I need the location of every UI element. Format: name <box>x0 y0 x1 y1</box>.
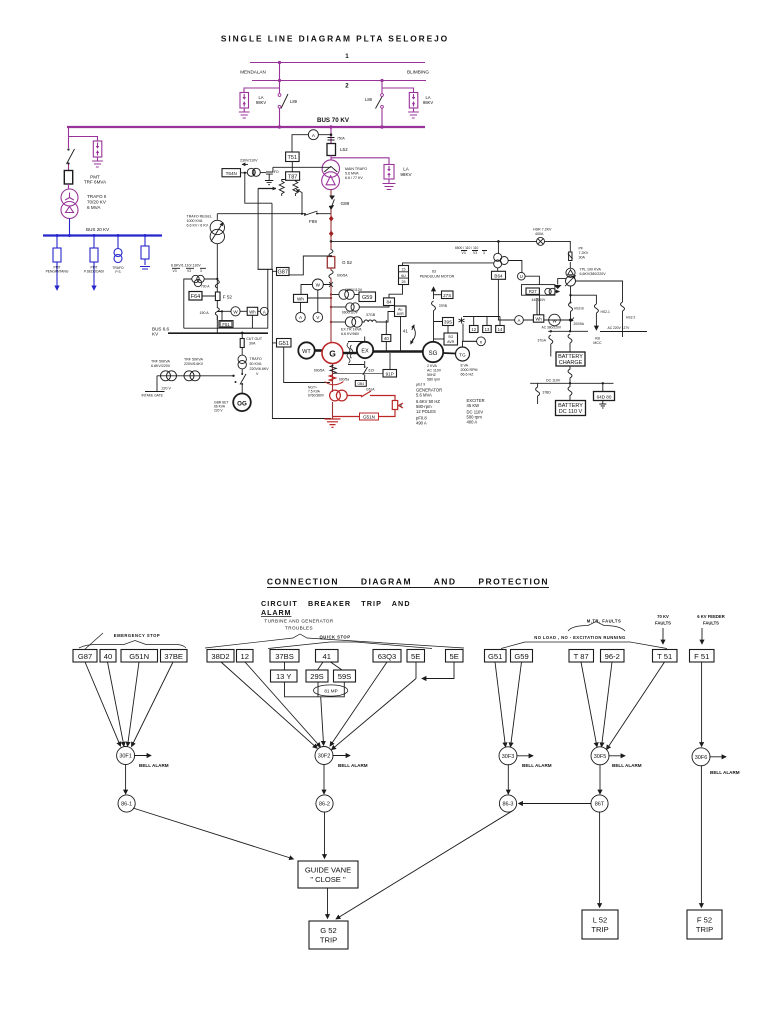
regulator R27 <box>525 276 539 284</box>
disconnect switch <box>67 149 75 164</box>
ground <box>383 179 396 190</box>
relay F51 <box>219 321 233 328</box>
svg-text:SG: SG <box>429 350 438 357</box>
svg-text:T64N: T64N <box>226 171 237 176</box>
svg-text:SG: SG <box>448 335 453 339</box>
svg-text:GUIDE VANE: GUIDE VANE <box>305 866 351 875</box>
svg-text:1: 1 <box>345 53 349 60</box>
svg-text:FO: FO <box>274 170 279 174</box>
relay 91P <box>383 370 397 378</box>
wire to PF <box>545 241 571 252</box>
wire relay loop <box>258 269 332 418</box>
svg-text:M.TR. FAULTS: M.TR. FAULTS <box>587 619 622 624</box>
svg-text:TRAFO II: TRAFO II <box>87 194 106 199</box>
breaker G52 <box>327 257 335 269</box>
relay 13Y <box>271 670 298 682</box>
svg-text:13: 13 <box>485 327 490 332</box>
svg-text:96-2: 96-2 <box>605 652 620 661</box>
ground <box>92 157 103 167</box>
svg-text:P S: P S <box>115 270 121 274</box>
relay G51N <box>121 650 158 663</box>
wire to F52 trip <box>700 765 702 907</box>
resistor var right <box>293 180 298 196</box>
svg-text:220V/6.6KV: 220V/6.6KV <box>250 367 270 371</box>
svg-text:MAIN TRAFO: MAIN TRAFO <box>345 167 367 171</box>
relay 5E b <box>446 650 464 663</box>
svg-text:SINGLE LINE DIAGRAM PLTA SE: SINGLE LINE DIAGRAM PLTA SELOREJO <box>221 34 449 44</box>
meter V <box>313 312 323 322</box>
svg-text:37BE: 37BE <box>164 652 183 661</box>
relay T51 <box>286 152 300 162</box>
brace emergency <box>79 641 186 649</box>
relay 12 <box>237 650 254 663</box>
svg-text:V: V <box>316 315 320 320</box>
svg-text:84: 84 <box>386 300 392 305</box>
switch below charger <box>568 366 572 383</box>
svg-text:V: V <box>256 372 259 376</box>
wire down + branch <box>571 281 623 304</box>
relay 41 <box>316 650 339 663</box>
relay GB4 <box>355 381 366 387</box>
svg-text:70 KV: 70 KV <box>657 614 669 619</box>
svg-text:n: n <box>480 339 483 344</box>
relay 59S <box>334 670 356 682</box>
meter W <box>312 279 323 290</box>
svg-text:BELL ALARM: BELL ALARM <box>710 770 740 775</box>
wire LA tap <box>69 137 98 142</box>
CT 750A <box>328 138 335 141</box>
arrester LA 96KV right <box>409 93 418 109</box>
relay T87 <box>286 172 300 181</box>
fuse feeder <box>144 236 146 247</box>
svg-text:G51: G51 <box>278 341 288 347</box>
svg-text:EX: EX <box>361 349 369 355</box>
relay circle 30F3 <box>499 747 517 765</box>
wire CT <box>330 241 332 250</box>
svg-text:FAULTS: FAULTS <box>655 621 671 626</box>
wire F89 <box>217 213 331 215</box>
wire to L52 trip <box>599 812 601 908</box>
resistor var left <box>279 180 284 196</box>
svg-text:12: 12 <box>240 652 248 661</box>
actuator GUIDE VANE CLOSE <box>133 808 294 859</box>
svg-text:63Q3: 63Q3 <box>378 652 397 661</box>
svg-text:12 POLES: 12 POLES <box>416 409 436 414</box>
svg-text:CIRCUIT BREAKER TRIP AND: CIRCUIT BREAKER TRIP AND <box>261 599 411 608</box>
ground <box>239 108 250 118</box>
svg-text:HS2-B: HS2-B <box>574 307 585 311</box>
wire G87 CT loop <box>289 256 331 275</box>
svg-text:30F6: 30F6 <box>695 755 708 761</box>
meter Wh <box>294 294 308 302</box>
svg-text:G 52: G 52 <box>320 926 336 935</box>
generator G <box>322 343 343 364</box>
svg-text:G51N: G51N <box>363 415 375 420</box>
svg-text:TRAFO REGEL: TRAFO REGEL <box>187 215 212 219</box>
svg-text:R27: R27 <box>529 289 537 294</box>
svg-text:TRIP: TRIP <box>696 925 713 934</box>
svg-text:WT: WT <box>302 349 311 355</box>
svg-text:220 V: 220 V <box>162 387 172 391</box>
svg-text:BUS 20 KV: BUS 20 KV <box>86 227 110 232</box>
ammeter A <box>308 130 318 140</box>
transmission line 2 <box>252 80 426 82</box>
svg-text:27S: 27S <box>443 293 451 298</box>
wire / switch G89 <box>330 190 332 214</box>
svg-text:600/5A: 600/5A <box>314 369 325 373</box>
svg-text:T87: T87 <box>288 174 297 180</box>
svg-text:A: A <box>518 318 521 323</box>
svg-text:63: 63 <box>432 270 436 274</box>
svg-text:200/5A: 200/5A <box>574 322 585 326</box>
svg-text:98KV: 98KV <box>256 100 266 105</box>
svg-text:15: 15 <box>402 268 406 272</box>
svg-text:50HZ: 50HZ <box>427 373 437 377</box>
switch 37BD <box>536 383 540 404</box>
svg-text:U: U <box>520 274 523 279</box>
svg-text:PENDULUM MOTOR: PENDULUM MOTOR <box>420 275 455 279</box>
switch main <box>568 334 572 352</box>
svg-text:86-1: 86-1 <box>121 802 132 808</box>
charger BATTERY CHARGE <box>556 352 585 366</box>
brace troubles <box>205 634 464 648</box>
relay G87 <box>73 650 97 663</box>
CT 700A <box>215 280 219 288</box>
svg-text:39S: 39S <box>444 320 452 325</box>
wire to G52 trip <box>327 888 329 919</box>
meter W <box>549 314 561 326</box>
svg-text:G87: G87 <box>277 270 287 276</box>
svg-text:59S: 59S <box>338 672 352 681</box>
svg-text:490 A: 490 A <box>416 421 427 426</box>
brace mtr <box>568 622 625 632</box>
relay G87 <box>277 268 290 276</box>
svg-text:6U: 6U <box>401 274 406 278</box>
switch HS2-2 <box>621 302 625 311</box>
battery BATTERY DC 110V <box>556 401 586 416</box>
PT second <box>331 306 346 308</box>
svg-text:V3: V3 <box>187 269 191 273</box>
switch HS2-1 <box>594 304 598 313</box>
svg-text:PENGANTANG: PENGANTANG <box>46 270 69 274</box>
svg-text:700 A: 700 A <box>201 285 210 289</box>
wire exciter field <box>364 361 366 381</box>
svg-text:220 V: 220 V <box>214 409 223 413</box>
wire to 30F6 <box>701 662 703 747</box>
relay T51 <box>653 650 678 663</box>
wire verticals <box>245 173 272 269</box>
transformer TRAFO 50KVA <box>238 355 246 363</box>
breaker PMT TRF 6MVA <box>64 171 72 185</box>
svg-text:37BD: 37BD <box>543 391 552 395</box>
meter A <box>515 316 524 325</box>
genset OG <box>233 394 251 412</box>
fuse F64 <box>189 292 202 301</box>
svg-text:F51: F51 <box>222 322 230 327</box>
svg-text:600/5A: 600/5A <box>337 274 348 278</box>
svg-text:Au: Au <box>398 308 402 312</box>
relay circle 30F5 <box>591 747 609 765</box>
wire LA tap <box>331 158 389 165</box>
svg-text:F 51: F 51 <box>694 652 709 661</box>
svg-text:TG: TG <box>459 352 466 357</box>
svg-text:2 KVA: 2 KVA <box>427 364 438 368</box>
svg-text:BUS 70 KV: BUS 70 KV <box>317 117 350 124</box>
svg-text:DC 110 V: DC 110 V <box>559 409 583 415</box>
svg-text:1000 KVA: 1000 KVA <box>187 219 204 223</box>
svg-text:98KV: 98KV <box>400 172 412 177</box>
svg-text:3: 3 <box>483 251 485 255</box>
fan to 30F2 <box>221 662 317 748</box>
svg-text:37GA: 37GA <box>538 339 547 343</box>
relays 12 13 14 <box>463 317 500 326</box>
svg-text:30F1: 30F1 <box>119 754 132 760</box>
svg-text:G51A: G51A <box>366 388 375 392</box>
svg-text:AC 380/220V: AC 380/220V <box>542 326 562 330</box>
svg-text:25: 25 <box>402 280 406 284</box>
wire main feeder from 70kv bus <box>330 127 332 144</box>
relay circle 30F1 <box>117 747 135 765</box>
wire NGT to ground <box>332 402 334 419</box>
transformer TRF 50KVA 220V/6.6KV <box>184 371 194 381</box>
CT pair <box>247 168 255 176</box>
svg-text:TROUBLES: TROUBLES <box>285 626 313 631</box>
svg-text:6760/380V: 6760/380V <box>308 394 325 398</box>
ground <box>408 108 419 118</box>
ground generator <box>325 419 341 427</box>
switch 61X <box>363 367 368 375</box>
svg-text:12: 12 <box>471 327 476 332</box>
svg-text:5.6 MVA: 5.6 MVA <box>416 393 432 398</box>
relay circle 30F6 <box>692 748 710 766</box>
svg-text:40: 40 <box>384 336 390 341</box>
relay circle 86-3 <box>499 795 516 812</box>
relay G59 <box>359 292 376 302</box>
AC220V line <box>600 311 647 337</box>
svg-text:G59: G59 <box>362 295 372 301</box>
shaft EX-SG <box>373 350 423 353</box>
switch 37GA <box>549 335 553 357</box>
svg-text:6.8KV/220V: 6.8KV/220V <box>151 364 171 368</box>
switch 37RB <box>432 301 436 311</box>
relay 84 <box>384 298 395 306</box>
turbine WT <box>298 342 314 358</box>
relay circle 86-1 <box>118 795 135 812</box>
svg-text:BELL ALARM: BELL ALARM <box>612 763 642 768</box>
svg-text:MENDALAN: MENDALAN <box>240 70 266 75</box>
relay B64 <box>492 271 506 279</box>
svg-text:440/110V: 440/110V <box>532 298 547 302</box>
svg-text:TRF 50KVA: TRF 50KVA <box>184 358 204 362</box>
meter Wh <box>247 307 258 315</box>
bus BUS 70 KV <box>67 126 425 128</box>
svg-text:V3: V3 <box>473 251 477 255</box>
svg-text:BLIMBING: BLIMBING <box>407 70 429 75</box>
svg-text:30A: 30A <box>249 342 256 346</box>
svg-text:81 MP: 81 MP <box>324 689 337 694</box>
svg-text:64D 80: 64D 80 <box>597 394 612 399</box>
svg-text:DC 110V: DC 110V <box>546 379 561 383</box>
switch <box>241 369 243 394</box>
relay G51 <box>485 650 507 663</box>
AC bus <box>548 330 588 332</box>
wire left branch <box>279 63 281 128</box>
relay 38D2 <box>207 650 234 663</box>
svg-text:G: G <box>329 349 336 359</box>
svg-text:8 VA: 8 VA <box>461 364 469 368</box>
svg-text:G51N: G51N <box>129 652 149 661</box>
svg-text:P.SEDODADI: P.SEDODADI <box>84 270 104 274</box>
arrester LA 96KV mid <box>384 165 394 180</box>
relay 29S <box>306 670 328 682</box>
brace no load <box>501 642 667 649</box>
exciter EX <box>357 342 373 358</box>
svg-text:5.6 MVA: 5.6 MVA <box>345 172 359 176</box>
brace quick stop <box>268 642 432 649</box>
svg-text:220V/6.6KV: 220V/6.6KV <box>184 362 204 366</box>
svg-text:150 A: 150 A <box>200 311 210 315</box>
wire CT gen neutral <box>332 364 334 393</box>
svg-text:ALARM: ALARM <box>261 608 291 617</box>
relay circle 30F2 <box>315 747 333 765</box>
svg-text:400A: 400A <box>535 232 544 236</box>
svg-text:G51: G51 <box>488 652 502 661</box>
svg-text:EMERGENCY STOP: EMERGENCY STOP <box>114 633 160 638</box>
wire metering <box>217 311 231 320</box>
svg-text:B64: B64 <box>494 274 503 279</box>
breaker F 52 TRIP <box>687 910 722 939</box>
svg-text:PF: PF <box>579 247 584 251</box>
svg-text:TRF 6MVA: TRF 6MVA <box>84 180 107 185</box>
svg-text:38D2: 38D2 <box>211 652 229 661</box>
svg-text:F64: F64 <box>191 294 200 300</box>
svg-text:W: W <box>552 318 557 323</box>
resistor NGR <box>392 401 397 410</box>
svg-text:580 rpm: 580 rpm <box>427 378 440 382</box>
svg-text:Wh: Wh <box>535 317 542 322</box>
transformer EX.TR <box>331 321 346 323</box>
svg-text:NO LOAD , NO - EXCITATION R: NO LOAD , NO - EXCITATION RUNNING <box>534 635 625 640</box>
svg-text:40: 40 <box>104 652 112 661</box>
svg-text:6,6KV/380/220V: 6,6KV/380/220V <box>580 272 607 276</box>
svg-text:5E: 5E <box>450 652 459 661</box>
brushes <box>348 342 364 365</box>
svg-text:86T: 86T <box>595 802 605 808</box>
switch HS2-B <box>569 303 573 312</box>
wire LA tap right <box>382 88 414 93</box>
svg-text:2: 2 <box>345 83 349 90</box>
relay F51 <box>690 650 715 663</box>
feeder PMT P.SEDODADI <box>93 236 95 291</box>
relay 40 <box>382 335 391 342</box>
svg-text:86-3: 86-3 <box>502 802 513 808</box>
svg-text:30F5: 30F5 <box>594 754 607 760</box>
breaker G 52 TRIP <box>309 921 348 949</box>
svg-text:A: A <box>263 309 266 314</box>
machine TG <box>443 352 455 355</box>
svg-text:30A: 30A <box>579 256 586 260</box>
svg-text:AVR: AVR <box>447 340 455 344</box>
svg-text:CUT OUT: CUT OUT <box>246 337 263 341</box>
wire <box>330 155 332 160</box>
relay G51 <box>277 339 292 348</box>
svg-text:TRIP: TRIP <box>320 936 337 945</box>
relay 37BE <box>161 650 188 663</box>
switch G51A <box>347 396 395 401</box>
svg-text:29S: 29S <box>310 672 324 681</box>
svg-text:5E: 5E <box>411 652 420 661</box>
svg-text:F 52: F 52 <box>697 916 712 925</box>
machine SG <box>423 342 443 362</box>
PT triple B64 <box>497 241 499 253</box>
svg-text:7.2KV: 7.2KV <box>579 251 589 255</box>
svg-text:BELL ALARM: BELL ALARM <box>338 763 368 768</box>
svg-text:AC 110V: AC 110V <box>427 369 442 373</box>
transmission line 1 <box>250 62 425 64</box>
relay G59 <box>511 650 533 663</box>
svg-text:61X: 61X <box>369 369 376 373</box>
fan to 30F5 <box>581 662 597 747</box>
svg-text:KB: KB <box>595 337 600 341</box>
fan to 30F1 <box>85 662 121 746</box>
svg-text:600/5a: 600/5a <box>339 378 349 382</box>
svg-text:T51: T51 <box>288 155 297 161</box>
wire left feeder down <box>68 127 70 171</box>
svg-text:" CLOSE ": " CLOSE " <box>310 875 346 884</box>
svg-text:66.6 HZ: 66.6 HZ <box>461 373 475 377</box>
relay 5E a <box>407 650 425 663</box>
wire CT 600/5A <box>330 268 332 343</box>
svg-text:70/20 KV: 70/20 KV <box>87 200 107 205</box>
fuse PF <box>569 252 572 261</box>
wire exciter top <box>364 337 366 343</box>
svg-text:FAULTS: FAULTS <box>703 621 719 626</box>
svg-text:6600/110V: 6600/110V <box>342 310 359 314</box>
meter Wh <box>533 315 543 322</box>
arrester LA 96KV left <box>240 93 249 109</box>
wire to 20kv bus <box>69 219 71 236</box>
wire 86T to 86-3 <box>519 803 592 805</box>
svg-text:230V/110V: 230V/110V <box>240 159 258 163</box>
arrester left feeder <box>93 141 102 157</box>
control cluster T64N <box>222 169 241 177</box>
svg-text:37BS: 37BS <box>275 652 294 661</box>
feeder PMT PENGANTANG <box>56 236 58 291</box>
relay 96-2 <box>601 650 625 663</box>
svg-text:V3: V3 <box>173 269 177 273</box>
svg-text:L52: L52 <box>340 147 348 152</box>
relay G51N <box>360 413 379 420</box>
svg-text:V3: V3 <box>462 251 466 255</box>
svg-text:HS2-2: HS2-2 <box>626 316 636 320</box>
svg-text:OG: OG <box>237 400 247 407</box>
svg-text:L89: L89 <box>365 97 373 102</box>
relay 81MP <box>285 682 345 697</box>
relay T87 <box>569 650 594 663</box>
svg-text:6600 / 110 / 110: 6600 / 110 / 110 <box>455 246 479 250</box>
disconnect L89 right <box>376 94 384 109</box>
svg-text:BELL ALARM: BELL ALARM <box>522 763 552 768</box>
relay 64D 80 <box>602 383 604 391</box>
fan to 30F3 <box>495 662 506 747</box>
transformer TRF 50KVA 6.8KV/220V <box>161 371 171 381</box>
transformer TRAFO II 70/20KV 6MVA <box>68 184 70 189</box>
svg-text:6 MVA: 6 MVA <box>87 205 101 210</box>
wire fuse marks <box>330 214 332 241</box>
wire right branch <box>381 81 383 128</box>
arrow KB MCC <box>595 313 597 330</box>
svg-text:µEJ 9: µEJ 9 <box>416 383 425 387</box>
